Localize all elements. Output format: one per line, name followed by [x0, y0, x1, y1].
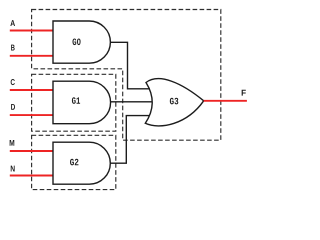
label N: [11, 166, 15, 172]
label G1: [72, 97, 80, 104]
label C: [11, 79, 15, 85]
label G3: [170, 98, 179, 105]
wire input N (red): [10, 175, 53, 177]
wire input M (red): [10, 150, 53, 152]
label G2: [70, 159, 78, 166]
label F: [242, 90, 246, 96]
dashed box around gate G2: [32, 135, 116, 189]
AND gate G1: [53, 81, 111, 124]
AND gate G0: [53, 21, 110, 63]
label A: [10, 20, 15, 26]
wire from G2 output to G3 bottom input: [110, 116, 149, 164]
label D: [11, 104, 15, 110]
OR gate G3: [145, 79, 203, 126]
wire output F (red): [204, 100, 247, 102]
dashed box around gate G1: [32, 74, 116, 131]
wire input B (red): [10, 55, 53, 57]
label M: [10, 140, 15, 146]
wire from G0 output to G3 top input: [110, 42, 150, 89]
dashed L-shaped chip outline enclosing G0 and G3: [32, 10, 221, 141]
label B: [11, 45, 15, 51]
wire input A (red): [10, 30, 53, 32]
wire input D (red): [10, 114, 53, 116]
AND gate G2: [53, 142, 110, 184]
label G0: [72, 38, 80, 45]
wire input C (red): [10, 89, 53, 91]
wire from G1 output to G3 middle input: [110, 101, 152, 103]
